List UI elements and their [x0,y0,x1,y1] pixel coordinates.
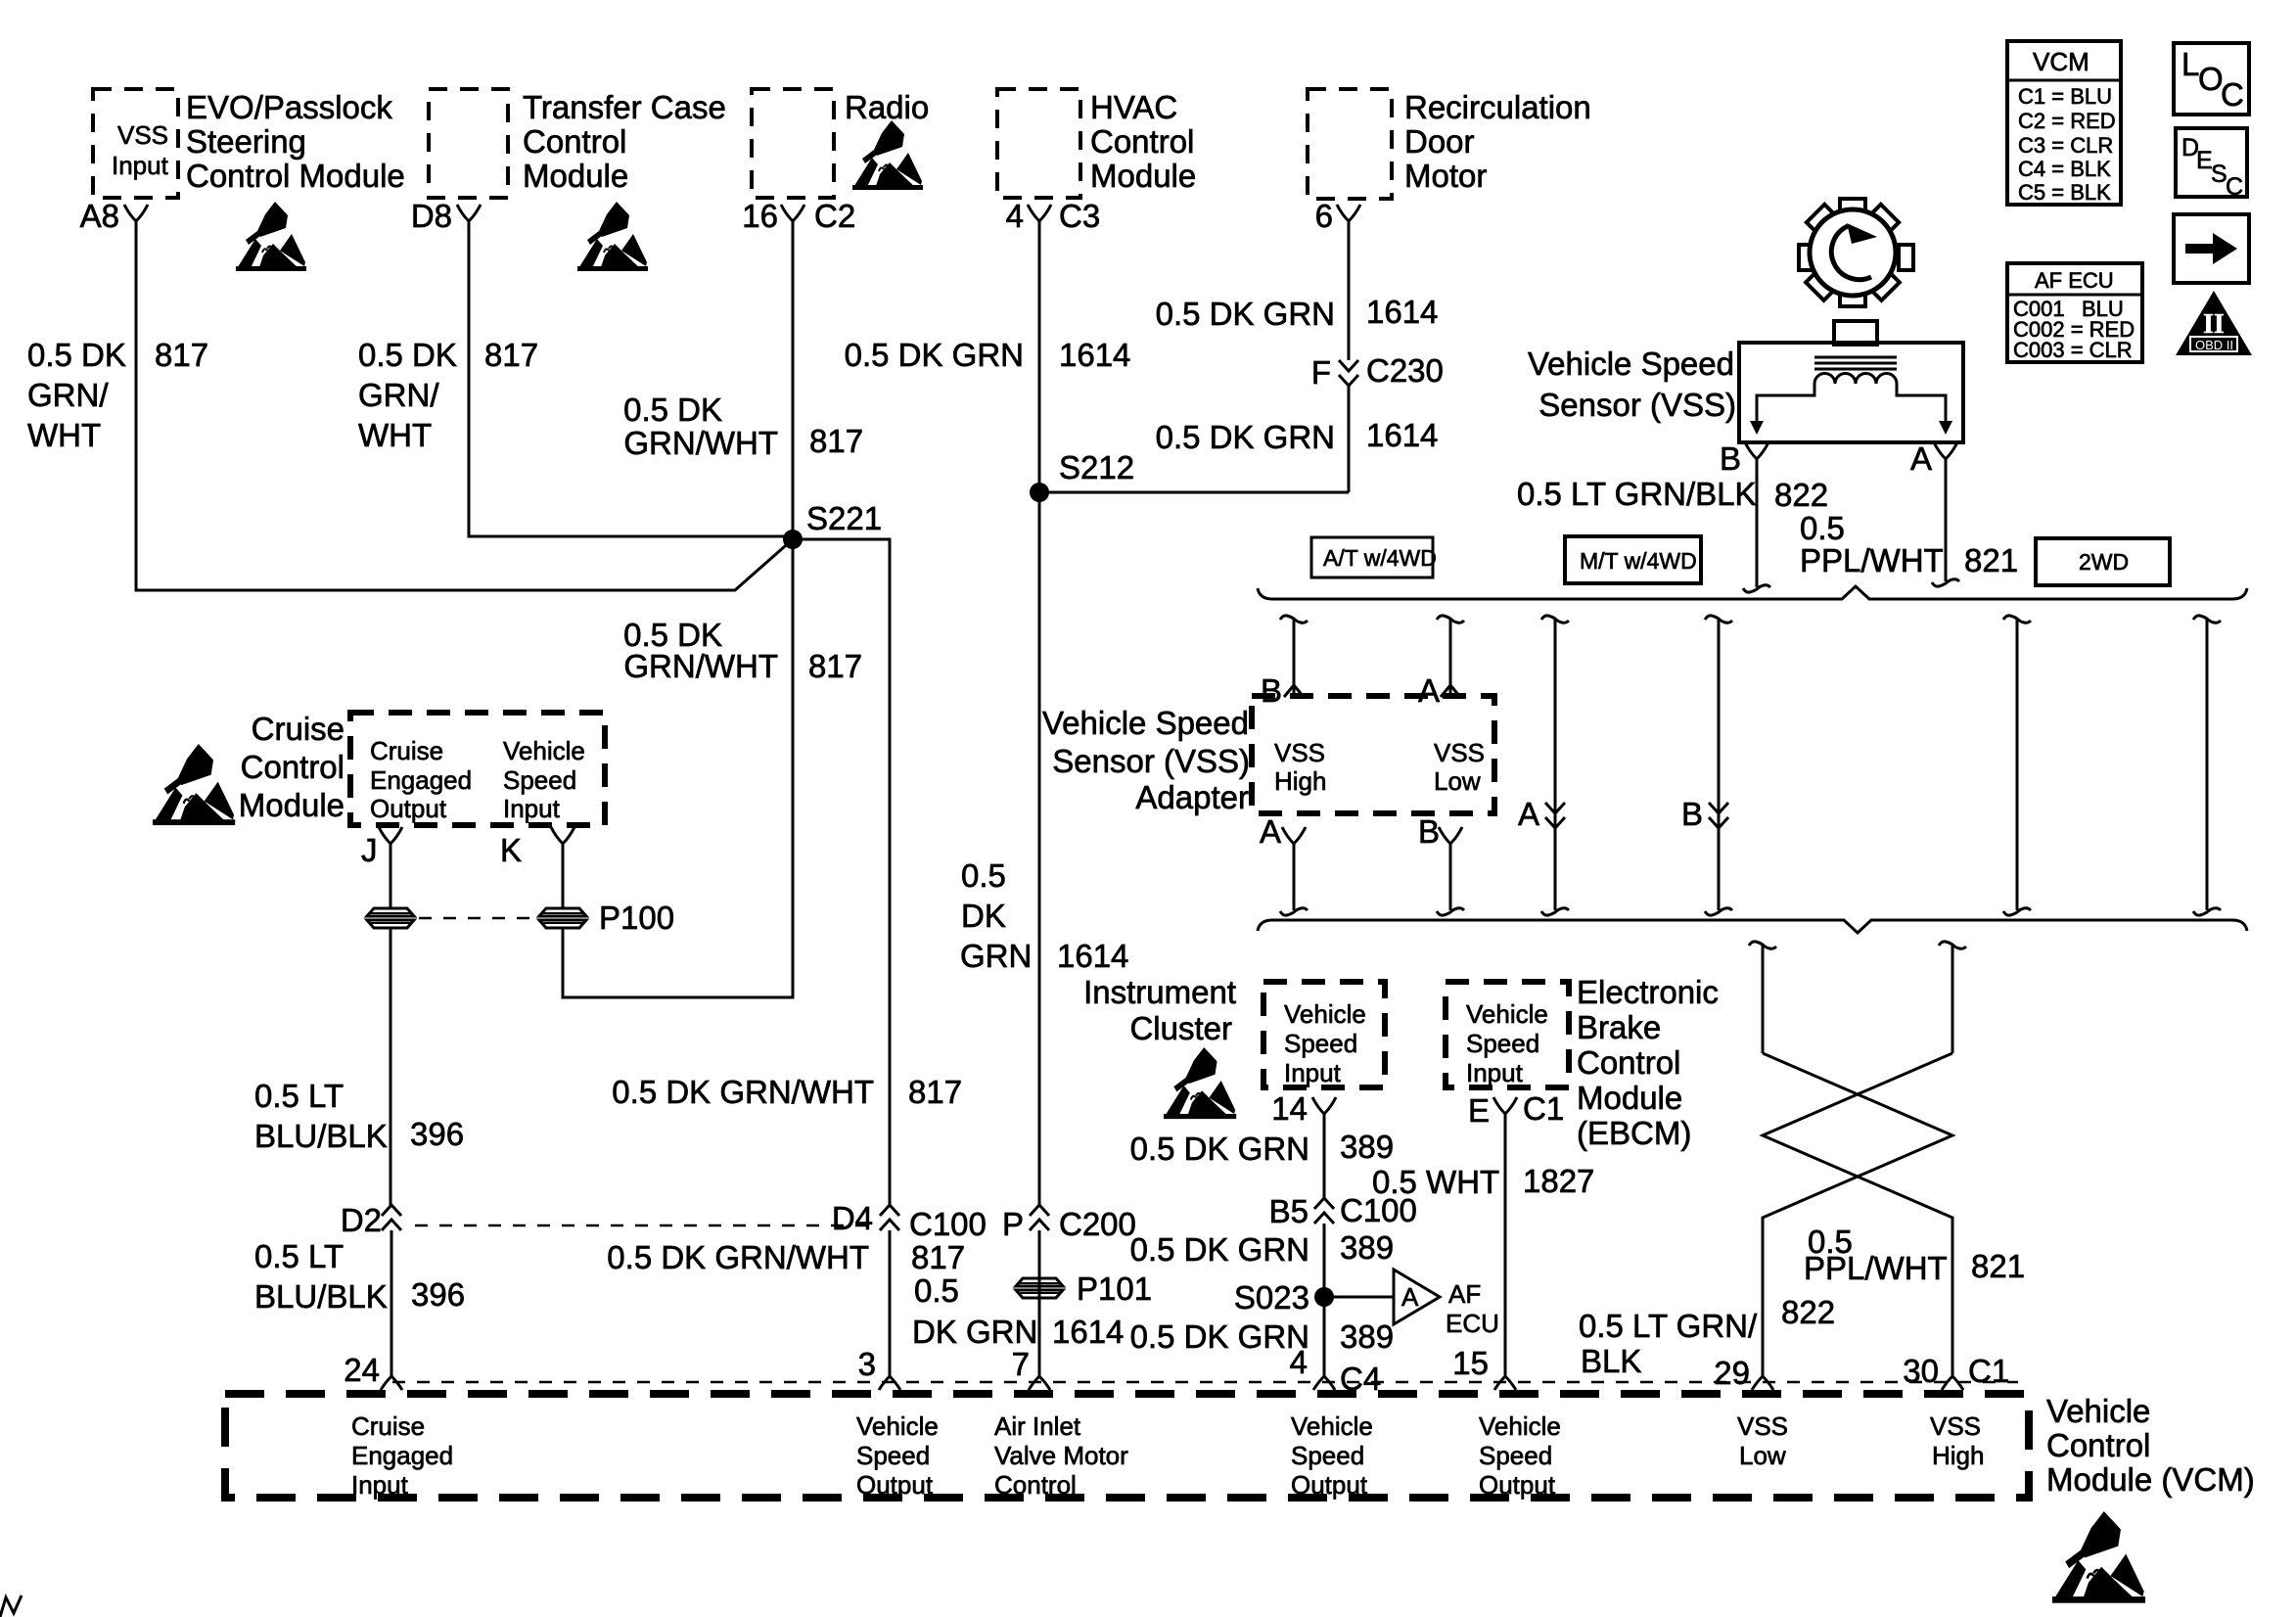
wire 817 DK GRN/WHT from Transfer D8 [358,221,789,536]
svg-text:Adapter: Adapter [1135,779,1249,815]
connector C100 pin D4 (on wire to pin 3) [415,1200,987,1242]
svg-text:A: A [1260,813,1281,850]
svg-text:Input: Input [112,151,169,180]
svg-text:J: J [361,832,378,868]
svg-text:High: High [1932,1441,1984,1470]
svg-text:B5: B5 [1269,1193,1309,1229]
wire 1614 from S212 to recirculation motor [1039,491,1349,494]
reluctor gear icon [1799,199,1913,306]
bottom gathering brace [1258,920,2247,933]
ESD symbol for VCM [2052,1511,2145,1603]
svg-text:D2: D2 [341,1202,382,1238]
pin 16 C2 of Radio [742,198,855,234]
connector C200 pin P (on HVAC wire) [1002,1205,1136,1242]
svg-text:Radio: Radio [845,89,929,125]
svg-text:VCM: VCM [2033,47,2089,76]
svg-text:Vehicle: Vehicle [856,1411,939,1441]
svg-text:Input: Input [351,1470,409,1500]
svg-text:Module: Module [239,787,344,823]
svg-text:B: B [1261,672,1282,709]
svg-text:Vehicle Speed: Vehicle Speed [1528,346,1734,382]
grommet P100 on J wire [367,908,414,928]
svg-text:Speed: Speed [856,1441,930,1470]
wire 1614 DK GRN from HVAC 4 [845,221,1131,1207]
wire 817 from Radio 16 down to S221 [623,221,863,539]
svg-text:GRN/: GRN/ [358,377,439,413]
svg-text:14: 14 [1271,1090,1308,1127]
svg-text:Low: Low [1434,766,1481,796]
ESD symbol for Transfer Case module [577,202,648,271]
svg-text:C1: C1 [1523,1090,1564,1127]
svg-text:A8: A8 [80,198,119,234]
svg-text:P100: P100 [599,900,674,936]
svg-text:396: 396 [410,1116,464,1152]
svg-text:1614: 1614 [1366,294,1438,330]
svg-text:3: 3 [858,1346,876,1382]
VSS label [1528,346,1736,423]
wire 822 LT GRN/BLK from VSS B [1517,459,1828,592]
svg-text:VSS: VSS [117,120,168,150]
module U4 HVAC Control Module (dashed box) [997,89,1196,198]
svg-text:Speed: Speed [1284,1029,1357,1058]
svg-text:0.5: 0.5 [961,857,1006,894]
svg-text:Sensor (VSS): Sensor (VSS) [1052,743,1250,779]
svg-text:C2: C2 [814,198,855,234]
svg-text:0.5 LT: 0.5 LT [254,1078,344,1114]
svg-text:C5 = BLK: C5 = BLK [2018,180,2111,205]
module Instrument Cluster (dashed box) [1263,982,1385,1087]
svg-text:C4 = BLK: C4 = BLK [2018,157,2111,181]
wire 817 branch from S221 to VCM pin 3 [612,539,962,1376]
svg-text:S023: S023 [1234,1279,1309,1316]
svg-text:396: 396 [411,1276,465,1313]
svg-text:ECU: ECU [1446,1309,1499,1338]
svg-text:817: 817 [808,648,862,684]
svg-text:6: 6 [1315,198,1333,234]
pin 30 C1 into VCM [1903,1353,2009,1390]
svg-text:AF ECU: AF ECU [2035,268,2114,293]
svg-text:DK: DK [961,898,1006,934]
legend DESC box [2176,128,2247,201]
wire option branch A (to adapter) [1418,616,1464,709]
svg-text:GRN/: GRN/ [27,377,109,413]
svg-text:Cluster: Cluster [1129,1010,1232,1046]
svg-text:High: High [1274,766,1326,796]
svg-text:Cruise: Cruise [252,711,344,747]
svg-text:1614: 1614 [1057,938,1128,974]
ESD symbol for Radio [852,120,923,190]
module U5 Recirculation Door Motor (dashed box) [1308,89,1591,199]
svg-text:WHT: WHT [358,417,432,453]
legend LOC box [2174,43,2249,115]
svg-text:0.5 DK: 0.5 DK [623,392,722,428]
svg-text:822: 822 [1774,477,1828,513]
connector C100 pin D2 (on wire 396) [341,1202,401,1238]
pin E C1 of EBCM [1468,1090,1564,1129]
module U1 EVO/Passlock Steering Control Module (dashed box) [93,89,405,198]
svg-text:GRN/WHT: GRN/WHT [623,648,778,684]
wire 817 below S221 to cruise K wire [563,539,862,997]
pin 7 into VCM [1012,1346,1050,1390]
svg-text:Control Module: Control Module [186,158,405,194]
connector C230 pin F [1311,352,1444,391]
svg-text:Engaged: Engaged [370,765,472,795]
svg-text:A: A [1418,672,1440,709]
option wire plain (2WD right) [2193,616,2221,915]
pin D8 of Transfer Case module [411,198,481,234]
svg-text:15: 15 [1452,1345,1489,1381]
wire 821 labels [1804,1224,2025,1286]
option tag M/T w/4WD [1565,536,1701,583]
svg-text:Control: Control [1577,1044,1680,1081]
wire 1614 label below P101 [912,1272,1124,1350]
svg-text:C3 = CLR: C3 = CLR [2018,133,2113,158]
svg-text:Speed: Speed [503,765,576,795]
wire from cruise K to S221 branch [563,844,793,997]
svg-text:Control: Control [1090,123,1194,160]
ESD symbol for cruise module [153,744,235,825]
svg-text:C2 = RED: C2 = RED [2018,109,2116,133]
svg-text:A/T w/4WD: A/T w/4WD [1323,545,1437,571]
svg-text:E: E [1468,1092,1490,1129]
svg-text:0.5 DK GRN: 0.5 DK GRN [845,337,1024,373]
svg-text:0.5 DK GRN: 0.5 DK GRN [1156,419,1335,455]
svg-text:4: 4 [1290,1344,1308,1380]
wire 1614 mid labels [960,857,1128,974]
svg-text:821: 821 [1964,542,2018,578]
svg-text:0.5: 0.5 [1800,510,1845,546]
svg-text:C230: C230 [1366,352,1444,389]
wire 817 label below C100 [607,1239,965,1275]
svg-text:D8: D8 [411,198,452,234]
svg-text:0.5 LT: 0.5 LT [254,1238,344,1274]
pin 24 into VCM [344,1352,402,1390]
svg-text:B: B [1681,796,1703,832]
svg-text:Steering: Steering [186,123,306,160]
svg-text:1614: 1614 [1052,1314,1124,1350]
top gathering brace [1258,586,2247,599]
svg-text:0.5 LT GRN/BLK: 0.5 LT GRN/BLK [1517,476,1757,512]
svg-text:C1 = BLU: C1 = BLU [2018,84,2112,109]
svg-text:B: B [1418,813,1440,850]
svg-text:VSS: VSS [1930,1411,1981,1441]
svg-text:C: C [2226,173,2243,201]
svg-text:A: A [1518,796,1539,832]
svg-text:VSS: VSS [1737,1411,1788,1441]
svg-text:Input: Input [1466,1058,1524,1087]
pin 4 C3 of HVAC [1006,198,1101,234]
svg-text:Air Inlet: Air Inlet [994,1411,1081,1441]
svg-text:C3: C3 [1059,198,1100,234]
svg-text:1614: 1614 [1059,337,1130,373]
svg-text:VSS: VSS [1274,738,1325,767]
svg-text:II: II [2203,309,2225,340]
svg-text:WHT: WHT [27,417,101,453]
wire 1827 WHT from EBCM E to VCM 15 [1372,1114,1594,1376]
svg-text:0.5 DK GRN: 0.5 DK GRN [1156,296,1335,332]
module Cruise Control Module (dashed box) [350,713,605,825]
vehicle speed sensor VSS body [1739,321,1963,442]
svg-text:Control: Control [994,1470,1077,1500]
grommet P101 [1016,1230,1152,1376]
svg-text:822: 822 [1781,1294,1835,1330]
ESD symbol for instrument cluster [1164,1047,1236,1119]
svg-text:Recirculation: Recirculation [1404,89,1591,125]
svg-text:0.5: 0.5 [914,1272,959,1309]
svg-text:VSS: VSS [1434,738,1485,767]
svg-text:OBD II: OBD II [2195,338,2233,352]
module Vehicle Control Module VCM (dashed box) [225,1394,2029,1500]
option wire plain (2WD left) [2003,616,2031,915]
VSS adapter label [1042,705,1250,815]
svg-text:817: 817 [155,337,208,373]
wire 396 LT BLU/BLK from cruise J to VCM 24 [254,844,464,1376]
svg-text:S212: S212 [1059,449,1134,485]
svg-text:Speed: Speed [1479,1441,1552,1470]
svg-text:Control: Control [241,749,344,785]
VCM label [2046,1393,2255,1498]
option tag 2WD [2036,538,2170,585]
svg-text:A: A [1401,1282,1419,1312]
branch to AF ECU buffer [1324,1270,1499,1338]
svg-text:Electronic: Electronic [1577,974,1719,1010]
wire 396 label below D2 [254,1238,465,1315]
svg-text:817: 817 [911,1239,965,1275]
pin 4 C4 into VCM [1290,1344,1382,1397]
svg-text:S221: S221 [806,500,882,536]
svg-text:16: 16 [742,198,778,234]
svg-text:389: 389 [1340,1129,1394,1165]
svg-text:0.5 DK GRN: 0.5 DK GRN [1130,1131,1309,1167]
svg-text:Vehicle: Vehicle [1291,1411,1373,1441]
legend VCM connector colors box [2007,41,2121,205]
svg-text:817: 817 [484,337,538,373]
wire 817 DK GRN/WHT from EVO A8 [27,221,793,590]
adapter lower pin A [1260,813,1308,915]
wire 822 drop below bottom brace [1749,942,1776,1053]
pin 14 of instrument cluster [1271,1090,1336,1127]
wire 821 PPL/WHT from VSS A [1800,459,2018,586]
svg-text:Module (VCM): Module (VCM) [2046,1461,2255,1498]
svg-text:Vehicle: Vehicle [1479,1411,1561,1441]
svg-text:C200: C200 [1059,1206,1136,1242]
wire 389 label above pin 4 [1130,1318,1394,1355]
svg-text:D4: D4 [832,1200,873,1236]
EBCM label [1577,974,1719,1151]
svg-text:0.5 DK GRN: 0.5 DK GRN [1130,1231,1309,1268]
svg-text:A: A [1910,440,1932,477]
svg-text:Transfer Case: Transfer Case [523,89,726,125]
svg-text:PPL/WHT: PPL/WHT [1804,1250,1948,1286]
grommet P100 on K wire [419,900,674,936]
svg-text:HVAC: HVAC [1090,89,1177,125]
pins B and A of VSS [1720,440,1957,477]
wire 1614 DK GRN from recirc pin 6 [1156,221,1439,492]
svg-text:4: 4 [1006,198,1024,234]
svg-text:389: 389 [1340,1318,1394,1355]
svg-text:Output: Output [1291,1470,1368,1500]
splice S023 [1234,1279,1334,1316]
svg-text:Vehicle: Vehicle [1466,999,1548,1029]
svg-text:821: 821 [1971,1248,2025,1284]
svg-text:F: F [1311,354,1331,391]
pin 3 into VCM [858,1346,900,1390]
svg-text:L: L [2181,46,2199,82]
Instrument Cluster label [1083,974,1236,1046]
module EBCM (dashed box) [1446,982,1569,1087]
svg-text:Motor: Motor [1404,158,1487,194]
svg-text:Vehicle: Vehicle [1284,999,1366,1029]
svg-text:1614: 1614 [1366,417,1438,453]
svg-text:GRN: GRN [960,938,1032,974]
Cruise Control Module label [239,711,344,823]
wire option branch B (to adapter) [1261,616,1308,709]
svg-text:Module: Module [1577,1080,1682,1116]
svg-text:M/T w/4WD: M/T w/4WD [1580,548,1697,574]
svg-text:0.5 DK GRN: 0.5 DK GRN [1130,1318,1309,1355]
svg-text:Output: Output [370,794,447,823]
svg-text:DK GRN: DK GRN [912,1314,1037,1350]
svg-text:0.5 LT GRN/: 0.5 LT GRN/ [1579,1308,1758,1344]
svg-text:Valve Motor: Valve Motor [994,1441,1128,1470]
svg-text:P101: P101 [1077,1270,1152,1307]
wire 1614 label below C230 [1156,417,1439,455]
option wire A (M/T) with inline connector [1518,616,1569,915]
svg-text:Input: Input [1284,1058,1342,1087]
pin J of cruise module [361,827,402,868]
svg-text:Brake: Brake [1577,1009,1661,1045]
legend forward arrow box [2174,214,2249,283]
svg-text:30: 30 [1903,1353,1939,1389]
wire 389 DK GRN from cluster 14 [1130,1114,1394,1200]
svg-text:0.5 DK: 0.5 DK [358,337,457,373]
VCM pin header dashed line [392,1381,2018,1384]
svg-text:EVO/Passlock: EVO/Passlock [186,89,392,125]
svg-text:K: K [500,832,522,868]
module U2 Transfer Case Control Module (dashed box) [429,89,726,198]
svg-text:(EBCM): (EBCM) [1577,1115,1691,1151]
connector C100 pin B5 [1269,1192,1417,1229]
splice S221 [783,500,882,549]
svg-text:P: P [1002,1206,1024,1242]
crossover of VSS wires [1763,1053,1952,1376]
adapter lower pin B [1418,813,1464,915]
svg-text:Output: Output [1479,1470,1556,1500]
pin 29 into VCM [1714,1355,1773,1391]
svg-text:BLU/BLK: BLU/BLK [254,1278,388,1315]
svg-text:7: 7 [1012,1346,1030,1382]
pin 6 of Recirculation Door Motor [1315,198,1360,234]
ESD symbol for EVO module [236,202,306,271]
corner registration tick [0,1595,22,1617]
svg-text:Module: Module [523,158,628,194]
svg-text:29: 29 [1714,1355,1750,1391]
svg-text:Input: Input [503,794,561,823]
legend AF ECU connector colors box [2007,263,2142,362]
svg-text:0.5 DK: 0.5 DK [27,337,126,373]
svg-text:Vehicle: Vehicle [503,736,585,765]
svg-text:BLU/BLK: BLU/BLK [254,1118,388,1154]
svg-text:Speed: Speed [1466,1029,1539,1058]
svg-text:817: 817 [908,1074,962,1110]
wire 821 drop below bottom brace [1939,942,1966,1053]
splice S212 [1030,449,1134,502]
svg-text:Vehicle Speed: Vehicle Speed [1042,705,1249,741]
wire 389 below C100 to S023 [1130,1224,1394,1376]
wire 822 labels [1579,1294,1835,1379]
svg-text:Engaged: Engaged [351,1441,453,1470]
VSS adapter dashed box [1252,696,1494,813]
option wire B (M/T) with inline connector [1681,616,1732,915]
svg-text:Output: Output [856,1470,934,1500]
svg-text:Instrument: Instrument [1083,974,1236,1010]
svg-text:Sensor (VSS): Sensor (VSS) [1538,387,1736,423]
svg-text:2WD: 2WD [2079,549,2129,575]
svg-text:AF: AF [1448,1279,1481,1309]
svg-text:C: C [2221,76,2244,113]
svg-text:B: B [1720,440,1741,477]
svg-text:Control: Control [2046,1427,2150,1463]
svg-text:C003 = CLR: C003 = CLR [2013,338,2133,362]
pin A8 of EVO module [80,198,148,234]
pin 15 into VCM [1452,1345,1516,1390]
svg-text:Cruise: Cruise [370,736,443,765]
svg-text:Low: Low [1739,1441,1786,1470]
svg-text:Cruise: Cruise [351,1411,425,1441]
svg-text:389: 389 [1340,1229,1394,1266]
pin K of cruise module [500,827,574,868]
option tag A/T w/4WD [1311,537,1437,577]
svg-text:Control: Control [523,123,626,160]
svg-text:1827: 1827 [1523,1163,1594,1199]
svg-text:24: 24 [344,1352,380,1388]
svg-text:GRN/WHT: GRN/WHT [623,425,778,461]
svg-text:Door: Door [1404,123,1475,160]
svg-text:0.5 DK GRN/WHT: 0.5 DK GRN/WHT [607,1239,869,1275]
svg-text:817: 817 [809,423,863,459]
svg-text:0.5 DK GRN/WHT: 0.5 DK GRN/WHT [612,1074,874,1110]
svg-text:Vehicle: Vehicle [2046,1393,2150,1429]
svg-text:BLK: BLK [1581,1343,1641,1379]
svg-text:Module: Module [1090,158,1196,194]
svg-text:C1: C1 [1968,1353,2009,1389]
svg-text:O: O [2198,61,2224,97]
module U3 Radio (dashed box) [752,89,929,198]
svg-text:Speed: Speed [1291,1441,1364,1470]
legend OBD II triangle [2176,291,2252,355]
svg-text:C100: C100 [909,1206,987,1242]
svg-text:PPL/WHT: PPL/WHT [1800,542,1944,578]
svg-text:0.5 WHT: 0.5 WHT [1372,1164,1499,1200]
